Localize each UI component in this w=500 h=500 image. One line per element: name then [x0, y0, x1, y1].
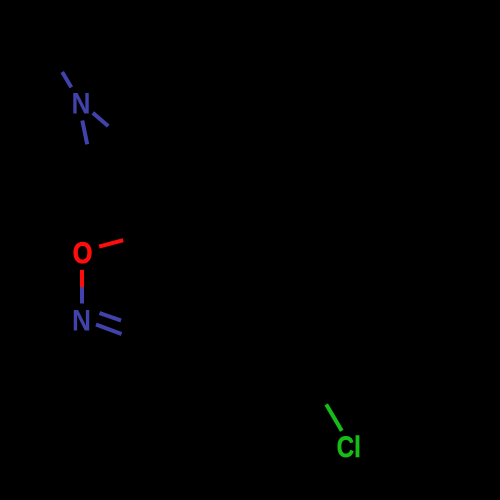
- wire N2=C3 double bond upper line (blue): [100, 313, 122, 321]
- svg-text:N: N: [72, 88, 91, 121]
- wire O-N2 lower half (blue): [80, 287, 84, 304]
- wire O-C5 (half-bond, red): [99, 240, 123, 246]
- wire C-Cl (half-bond, green): [326, 404, 342, 430]
- wire O-N2 upper half (red): [80, 270, 84, 287]
- wire N1-C right (half-bond, blue): [93, 113, 108, 126]
- wire N2=C3 double bond lower line (blue): [96, 325, 122, 335]
- svg-text:O: O: [73, 237, 93, 270]
- wire N1-CH3 (half-bond, blue): [62, 72, 71, 87]
- svg-text:N: N: [72, 305, 91, 338]
- svg-text:Cl: Cl: [337, 431, 361, 464]
- wire N1-C down (half-bond, blue): [82, 121, 87, 145]
